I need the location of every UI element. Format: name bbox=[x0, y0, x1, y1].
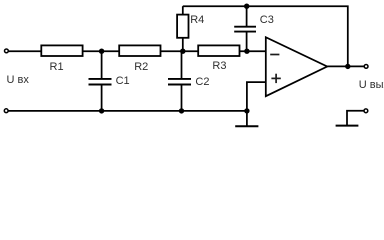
junction C1 on ground rail bbox=[99, 108, 104, 113]
svg-text:R3: R3 bbox=[212, 60, 226, 72]
output ground terminal circle bbox=[364, 109, 368, 113]
ground rail wire bbox=[8, 110, 247, 112]
svg-text:U вых: U вых bbox=[359, 79, 384, 91]
wire R3 to op-amp inverting input bbox=[240, 50, 266, 52]
wire C2 to ground rail bbox=[181, 85, 183, 111]
wire C3 top stem bbox=[246, 6, 248, 26]
svg-text:U вх: U вх bbox=[7, 74, 30, 86]
output terminal Uвых bbox=[364, 65, 368, 69]
wire op-amp output bbox=[327, 65, 364, 67]
resistor R3 bbox=[198, 45, 239, 56]
capacitor C2 bbox=[168, 79, 191, 85]
resistor R4 bbox=[177, 15, 188, 38]
resistor R2 bbox=[119, 45, 160, 56]
svg-text:R1: R1 bbox=[50, 61, 64, 73]
wire node A down to C1 bbox=[101, 51, 103, 78]
wire input to R1 bbox=[9, 50, 41, 52]
node A junction bbox=[99, 49, 104, 54]
wire R4 top to feedback rail bbox=[182, 6, 184, 14]
svg-text:C1: C1 bbox=[116, 75, 130, 87]
op-amp minus sign bbox=[270, 54, 279, 56]
capacitor C1 bbox=[89, 79, 112, 85]
op-amp U1 bbox=[266, 37, 327, 96]
svg-text:C3: C3 bbox=[260, 14, 274, 26]
capacitor C3 bbox=[234, 27, 256, 32]
svg-text:R4: R4 bbox=[190, 14, 204, 26]
feedback top wire bbox=[183, 6, 348, 66]
wire R1 to node A bbox=[83, 50, 120, 52]
wire C3 bottom to node C bbox=[246, 32, 248, 51]
node B junction bbox=[180, 49, 185, 54]
svg-text:C2: C2 bbox=[195, 76, 209, 88]
resistor R1 bbox=[41, 45, 82, 56]
ground symbol bar bbox=[235, 125, 258, 127]
wire node B down to C2 bbox=[181, 51, 183, 78]
ground symbol stem bbox=[246, 111, 248, 126]
wire node B up to R4 bbox=[182, 38, 184, 51]
junction C3 top bbox=[244, 3, 249, 8]
ground terminal circle left bbox=[4, 109, 8, 113]
input terminal Uвх bbox=[5, 49, 9, 53]
wire output ground bbox=[347, 111, 364, 125]
op-amp plus sign bbox=[271, 74, 280, 83]
ground symbol bar right bbox=[336, 125, 359, 127]
wire R2 to node B bbox=[161, 50, 199, 52]
junction C2 on ground rail bbox=[179, 108, 184, 113]
wire C1 to ground rail bbox=[101, 85, 103, 111]
junction plus input on ground rail bbox=[244, 108, 249, 113]
svg-text:R2: R2 bbox=[134, 61, 148, 73]
node C junction bbox=[244, 49, 249, 54]
wire non-inverting input bbox=[247, 82, 266, 111]
node output junction bbox=[345, 64, 350, 69]
